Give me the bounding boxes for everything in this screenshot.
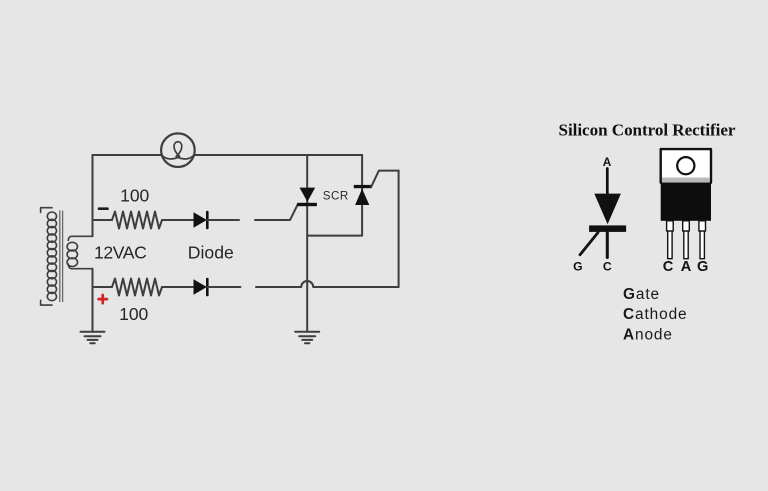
ground (transformer) bbox=[81, 332, 105, 344]
svg-text:Cathode: Cathode bbox=[623, 306, 688, 323]
wire: D1 to gap bbox=[207, 219, 239, 221]
wire: R1 to D1 bbox=[162, 219, 194, 221]
SCR symbol: anode lead bbox=[606, 169, 609, 197]
wire: top rail left segment bbox=[93, 154, 162, 156]
SCR symbol: cathode bar bbox=[589, 225, 626, 232]
TO-220 package tab bbox=[661, 149, 711, 183]
lamp L1 bbox=[161, 133, 195, 167]
TO-220 body bbox=[661, 183, 711, 221]
wire: SCR2 vertical (top rail to connector) bbox=[361, 155, 363, 236]
wire: vertical from top rail to secondary top bbox=[92, 155, 94, 236]
TO-220 leg A bbox=[683, 221, 690, 259]
wire: right vertical bbox=[398, 171, 400, 287]
transformer T1 secondary winding bbox=[67, 236, 92, 268]
wire: D2 to gap bbox=[207, 286, 240, 288]
wire: R2 to D2 bbox=[162, 286, 194, 288]
TO-220 mounting hole bbox=[677, 157, 694, 174]
diode D1 bbox=[194, 212, 208, 228]
ground (center) bbox=[295, 332, 319, 344]
TO-220 leg G bbox=[699, 221, 706, 259]
svg-text:Gate: Gate bbox=[623, 286, 660, 303]
svg-text:100: 100 bbox=[119, 304, 148, 324]
resistor R2 (100 ohm lower) bbox=[112, 279, 162, 296]
svg-text:12VAC: 12VAC bbox=[94, 242, 147, 262]
polarity label: minus bbox=[99, 207, 108, 210]
svg-text:G: G bbox=[697, 259, 708, 275]
SCR symbol: cathode lead bbox=[606, 232, 609, 258]
TO-220 gray band bbox=[662, 178, 710, 183]
diode D2 bbox=[194, 279, 208, 295]
TO-220 leg C bbox=[667, 221, 674, 259]
wire: SCR1 cathode to SCR2 anode connector bbox=[307, 235, 362, 237]
SCR symbol: gate lead bbox=[580, 233, 598, 255]
wire: top rail right segment bbox=[194, 154, 362, 156]
wire: lower branch left lead bbox=[93, 286, 113, 288]
svg-text:Diode: Diode bbox=[188, 242, 234, 262]
svg-text:C: C bbox=[603, 259, 612, 273]
wire: upper branch left lead bbox=[93, 219, 113, 221]
wire: SCR1 vertical (top rail to ground) bbox=[306, 155, 308, 332]
svg-text:C: C bbox=[663, 259, 674, 275]
wire: secondary bottom to ground bbox=[92, 269, 94, 332]
resistor R1 (100 ohm upper) bbox=[112, 212, 162, 229]
wire: SCR2 gate to right vertical bbox=[371, 171, 398, 187]
SCR Q1 bbox=[297, 188, 317, 207]
svg-text:100: 100 bbox=[120, 185, 149, 205]
svg-text:A: A bbox=[603, 155, 612, 169]
SCR symbol: anode triangle bbox=[594, 194, 621, 225]
SCR Q2 bbox=[354, 185, 372, 205]
svg-text:Anode: Anode bbox=[623, 327, 673, 344]
transformer T1 core bbox=[60, 211, 63, 302]
wire: bottom return with hop over SCR1 vertical bbox=[256, 281, 399, 287]
wire: upper branch right segment to SCR1 gate bbox=[255, 205, 298, 220]
transformer T1 primary winding bbox=[41, 208, 57, 305]
svg-text:Silicon Control Rectifier: Silicon Control Rectifier bbox=[559, 121, 736, 140]
svg-text:SCR: SCR bbox=[323, 190, 349, 203]
svg-text:G: G bbox=[573, 259, 582, 273]
polarity label: plus bbox=[99, 295, 107, 303]
svg-text:A: A bbox=[681, 259, 692, 275]
